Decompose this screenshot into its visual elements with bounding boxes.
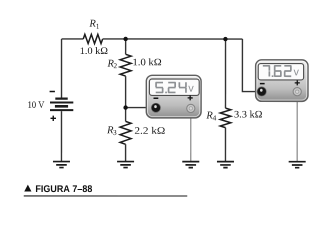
voltmeter V1 body	[146, 75, 201, 118]
figure caption triangle	[24, 185, 31, 192]
voltmeter V2 display unit v	[294, 70, 299, 76]
voltmeter V1 display digits 5.24	[155, 82, 187, 94]
voltmeter V2 body	[256, 60, 308, 102]
label R3	[107, 126, 113, 133]
value label 1.0 kOhm (R1)	[81, 47, 108, 54]
wire: top rail to meter V2 minus terminal	[242, 39, 259, 92]
wire: R2 branch top lead	[125, 39, 127, 54]
battery VS 10 V	[50, 99, 73, 111]
voltmeter V2 minus label	[260, 83, 265, 85]
label R2	[107, 60, 113, 67]
voltmeter V2 negative terminal	[257, 87, 266, 96]
figure caption rule	[24, 195, 187, 197]
figure caption text FIGURA 7-88	[36, 185, 92, 192]
wire: R4 branch top lead	[224, 39, 226, 108]
resistor R2	[120, 54, 131, 76]
value label 1.0 kOhm (R2)	[133, 58, 161, 65]
wire: battery to ground	[60, 111, 62, 161]
ground: R4	[217, 162, 234, 168]
value label 3.3 kOhm (R4)	[234, 111, 261, 118]
resistor R4	[220, 108, 231, 128]
battery plus sign	[50, 116, 56, 121]
voltmeter V1 positive terminal	[187, 104, 195, 112]
wire: junction to meter V1	[126, 107, 152, 109]
voltmeter V2 positive terminal	[293, 88, 301, 96]
wire: top rail right segment	[103, 38, 243, 40]
wire: meter V1 plus terminal to ground	[190, 109, 192, 161]
wire: R4 to ground	[224, 128, 226, 161]
resistor R3	[120, 121, 131, 144]
value label 2.2 kOhm (R3)	[135, 127, 165, 134]
ground: battery	[53, 162, 70, 168]
label 10 V	[28, 101, 44, 108]
resistor R1	[83, 34, 102, 43]
ground: meter V2	[289, 162, 306, 168]
wire: left vertical to battery	[61, 39, 63, 98]
wire: meter V2 plus terminal to ground	[296, 92, 298, 161]
wire: top rail left segment	[62, 38, 84, 40]
voltmeter V1 display unit v	[188, 86, 193, 92]
voltmeter V2 plus label	[295, 80, 300, 85]
wire: R3 to ground	[125, 144, 127, 161]
node B: R4 top junction	[223, 37, 227, 41]
voltmeter V1 plus label	[188, 95, 193, 100]
voltmeter V2 display digits 7.62	[263, 65, 292, 77]
voltmeter V1 minus label	[154, 97, 159, 99]
label R1	[89, 20, 95, 27]
node C: R2/R3 junction	[123, 105, 127, 109]
wire: R2 bottom lead to junction	[125, 76, 127, 107]
node A: R1/R2 junction	[123, 37, 127, 41]
ground: R3	[117, 162, 134, 168]
wire: R3 top lead	[125, 108, 127, 122]
ground: meter V1	[182, 162, 199, 168]
label R4	[206, 112, 212, 119]
battery minus sign	[50, 91, 55, 93]
voltmeter V1 negative terminal	[151, 103, 160, 112]
